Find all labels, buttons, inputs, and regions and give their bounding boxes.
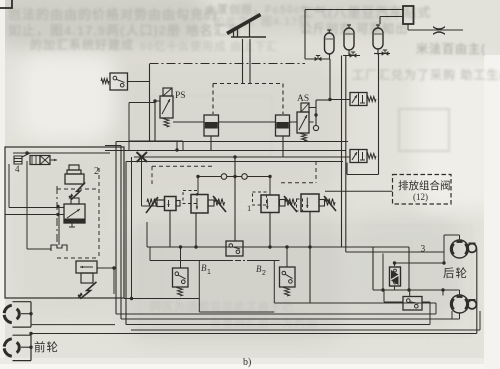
pedal base [231, 36, 266, 38]
drain arrow under cylinder [68, 180, 85, 202]
svg-text:PS: PS [175, 91, 186, 101]
bus line y161 [126, 161, 343, 163]
wire F1-F2 link [219, 121, 276, 123]
bottom bus y298 [124, 298, 199, 300]
wire main double line B [345, 56, 347, 253]
wire SW4 stub [409, 290, 411, 297]
wire left feed riser [304, 10, 306, 60]
wire corner x480 [479, 311, 481, 330]
pressure switch PSW2 [286, 247, 288, 267]
wire hook wheel4 [443, 289, 460, 291]
drain arrow lower [77, 278, 96, 302]
svg-text:4: 4 [15, 164, 20, 174]
drain cock D1 [315, 57, 318, 61]
booster body [64, 204, 85, 223]
valve AS pilot box [301, 103, 309, 112]
wire A3 stem [377, 49, 379, 55]
small connector [71, 198, 79, 204]
page corner registration mark [0, 0, 12, 8]
dashed pilot frame right [281, 182, 316, 184]
wire section1 drop [169, 211, 171, 248]
valve AS body [297, 112, 309, 133]
node on y150 [175, 148, 178, 151]
wire RV2 stubs [394, 263, 396, 266]
wire section2 drop [195, 213, 197, 247]
wire corner x409 [408, 247, 410, 290]
spring below PSW2 [285, 287, 290, 296]
ghost bleedthrough text top-center [205, 1, 320, 17]
wire SW1 to riser [128, 81, 150, 83]
node y290 b [407, 288, 410, 291]
master cylinder cap [69, 165, 79, 170]
exhaust combination valve box [393, 175, 452, 205]
bottom bus y319 [121, 318, 460, 320]
wire SW4 right out [422, 301, 430, 303]
wire main riser left [329, 59, 331, 100]
wire rear tail link [476, 249, 478, 334]
bus corner x126 [125, 162, 127, 325]
pressure switch PSW3 center [226, 241, 243, 256]
left unit outer frame [5, 147, 124, 298]
bottom bus y330 [131, 329, 480, 331]
wire left return riser [146, 222, 148, 247]
node L1 [56, 205, 59, 208]
svg-text:排放组合阀: 排放组合阀 [398, 179, 451, 192]
svg-text:1: 1 [247, 203, 251, 213]
ghost bleedthrough text top-right [300, 2, 431, 21]
svg-text:2: 2 [262, 270, 266, 277]
dashed frame bottom [57, 257, 99, 259]
dashed pilot frame left [152, 165, 212, 167]
brake valve section 1 [157, 200, 165, 207]
svg-text:1: 1 [207, 269, 211, 276]
node b1 [179, 245, 182, 248]
wire RB to bus [97, 267, 114, 269]
plunger cylinder F1 [204, 115, 219, 136]
drain cock D2 [350, 53, 353, 57]
wire AS outlet [309, 107, 316, 109]
wire y252 right [346, 251, 444, 253]
dashed pilot cap B-d [297, 199, 303, 211]
wire delivery bus y247 [147, 246, 409, 248]
wire AS branch to filter line [309, 121, 314, 123]
wire F2 drop [282, 136, 284, 157]
accumulator A3 [373, 28, 383, 49]
wire front wheel bus y333 [31, 333, 477, 335]
ghost bleed lines lower half [140, 225, 472, 337]
wire A1 stem [329, 54, 331, 59]
wire wheel4 bottom stem [459, 313, 461, 320]
brake chamber W3 [468, 244, 477, 253]
wire second feed to dryer [380, 16, 403, 18]
wire V2 loop bottom [346, 163, 348, 175]
dashed drop to F2 [282, 84, 284, 115]
gauge port circle G1 [221, 174, 227, 180]
bus corner x131 [131, 157, 133, 299]
chain line upper boundary [150, 63, 306, 65]
bottom bus y324 [126, 324, 430, 326]
brake chamber W4 [468, 300, 477, 309]
wire cylinder ports [9, 207, 64, 209]
wire gauge line [198, 176, 221, 178]
hand valve HV4 body [30, 156, 40, 165]
node L2 [56, 213, 59, 216]
wire dryer outlet [407, 24, 409, 30]
gauge port circle G2 [242, 174, 248, 180]
brake pedal [227, 15, 261, 34]
front wheel W2 [4, 339, 12, 347]
spring right of section4 [325, 199, 335, 206]
svg-text:3: 3 [421, 245, 426, 255]
wire drop from node L1 [58, 208, 60, 246]
drain cock D3 [382, 51, 385, 55]
chain mark center [149, 247, 151, 261]
ghost bleedthrough text top-left [8, 4, 218, 23]
wire corner x452 [451, 311, 453, 319]
relay valve RV2 [390, 267, 401, 286]
wire A2 stem [348, 50, 350, 56]
bus corner stub [105, 145, 121, 147]
relay valve lower [81, 273, 93, 283]
wire V1 inlet [330, 99, 350, 101]
solenoid valve V1 [350, 93, 367, 106]
air dryer unit [403, 6, 414, 24]
wire loop y312 [199, 311, 274, 313]
wire PS inlet [155, 100, 160, 102]
wire hook wheel3 [443, 235, 445, 263]
dashed drop to F1 [212, 84, 214, 115]
wire PS routing box [129, 102, 155, 104]
wire loop x199 [198, 261, 200, 313]
wire riser x383 [382, 254, 384, 291]
wire y290 [373, 289, 443, 291]
pressure switch SW4 [403, 297, 422, 311]
spring below AS [302, 133, 307, 141]
spring of V1 [367, 97, 376, 102]
spring below PS [164, 118, 169, 127]
valve PS body [160, 96, 173, 118]
spring left of section1 [147, 199, 157, 206]
test port circle [313, 125, 318, 130]
pedal linkage rod left [242, 39, 244, 84]
pressure switch SW1 [110, 73, 128, 90]
plunger cylinder F2 [276, 115, 290, 136]
valve PS pilot box [163, 88, 172, 96]
wire corner x436 [435, 303, 437, 314]
pedal linkage rod right [249, 39, 251, 84]
wire loop x274 [273, 261, 275, 304]
wire riser A3 to valve line [378, 54, 380, 175]
chain line vertical left [56, 186, 58, 244]
ghost bleedthrough diagram marks [398, 108, 450, 152]
wire PS drop [154, 101, 156, 141]
wire main double line A [341, 56, 343, 247]
wire section3 drop [269, 213, 271, 248]
spring left of SW1 [101, 79, 109, 84]
node gauge mid [233, 175, 236, 178]
brake valve section 2 [191, 195, 208, 214]
svg-text:前轮: 前轮 [34, 340, 59, 354]
front wheel W1 [4, 305, 12, 313]
wire F2 to AS [290, 121, 298, 123]
svg-text:(12): (12) [413, 192, 428, 202]
accumulator A2 [344, 28, 354, 50]
solenoid valve V2 [350, 150, 367, 163]
crossed-plug symbol [137, 152, 148, 162]
dashed top link [57, 188, 99, 190]
wire front wheel line y325 [31, 324, 115, 326]
ghost bleedthrough text bottom [150, 298, 294, 314]
wire loop y303 [274, 302, 436, 304]
node RB out [112, 266, 115, 269]
wire corner x430 [429, 302, 431, 325]
wire inner loop left [26, 161, 28, 249]
rear wheel W3 [451, 240, 469, 258]
wire PS to F1 [173, 121, 204, 123]
bus line y157 [134, 156, 350, 158]
wire SW4 left feed [383, 290, 385, 302]
spring right of section2 [215, 199, 225, 206]
dashed frame right [98, 168, 100, 258]
pressure switch PSW1 [180, 247, 182, 268]
node gauge left [196, 175, 199, 178]
wire port riser [8, 164, 10, 208]
svg-text:后轮: 后轮 [443, 266, 468, 280]
throttle valve [433, 26, 445, 30]
wire corner x373 [372, 247, 374, 290]
wire F1 drop [210, 136, 212, 150]
bus corner x116 [115, 142, 117, 315]
wire into exhaust box [325, 190, 393, 192]
svg-text:b): b) [243, 357, 251, 368]
pipe bracket [51, 245, 67, 251]
left unit inner top line [13, 152, 110, 154]
accumulator A1 [325, 33, 335, 54]
master cylinder body [65, 174, 84, 184]
node y290 a [381, 288, 384, 291]
brake valve section 3 [261, 195, 279, 213]
rear wheel W4 [451, 295, 469, 313]
spring below PSW1 [178, 287, 183, 296]
node wheel4 riser [441, 288, 444, 291]
wire gauge drops [197, 177, 199, 195]
relay box RB [76, 261, 97, 273]
node center drop [233, 155, 236, 158]
node gauge right [268, 175, 271, 178]
svg-text:2: 2 [94, 166, 99, 177]
spring right of section3 [286, 199, 296, 206]
wire riser x177 [176, 141, 178, 150]
bus line y150 [105, 150, 346, 152]
wire y263 to wheel3 [395, 262, 445, 264]
node front link [29, 332, 32, 335]
dashed header to plungers [213, 83, 283, 85]
brake valve section 4 [301, 194, 319, 212]
wire accumulator bus [305, 58, 330, 60]
wire top bus to dryer [305, 9, 403, 11]
bus line y141 [116, 141, 348, 143]
wire section4 drop [309, 212, 311, 304]
bottom bus y314 [116, 313, 436, 315]
wire center drop to switch [234, 157, 236, 241]
dashed pilot cap B-c [253, 192, 267, 205]
spring of V2 [367, 154, 376, 159]
node AS branch [314, 113, 317, 116]
bus corner x121 [120, 146, 122, 320]
wire inlet riser left [141, 158, 143, 206]
hand valve HV4 lever [14, 156, 22, 164]
dashed pilot cap B-b [183, 191, 197, 204]
